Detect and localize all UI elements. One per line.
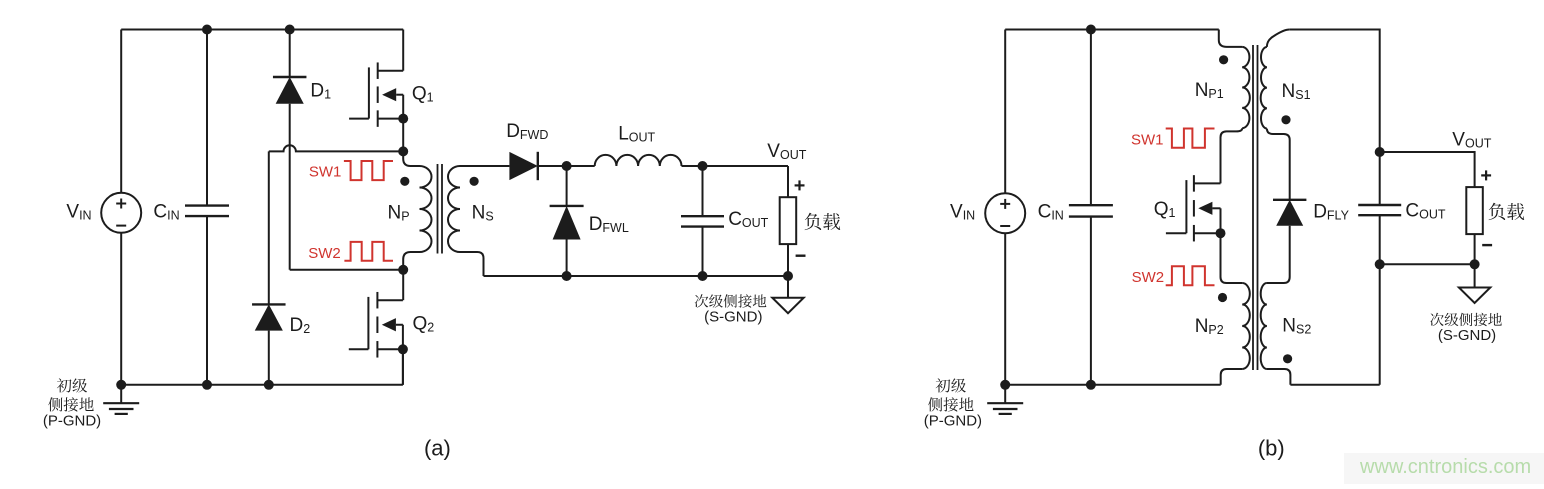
svg-text:SW1: SW1 <box>1131 131 1164 148</box>
svg-text:(P-GND): (P-GND) <box>924 413 982 430</box>
svg-text:(a): (a) <box>424 436 451 461</box>
svg-text:SW1: SW1 <box>309 164 342 181</box>
svg-text:SW2: SW2 <box>1132 269 1165 286</box>
svg-text:(S-GND): (S-GND) <box>704 309 762 326</box>
svg-text:(P-GND): (P-GND) <box>43 413 101 430</box>
svg-text:www.cntronics.com: www.cntronics.com <box>1359 456 1531 478</box>
svg-text:SW2: SW2 <box>308 245 341 262</box>
svg-text:(S-GND): (S-GND) <box>1438 327 1496 344</box>
svg-text:(b): (b) <box>1258 436 1285 461</box>
